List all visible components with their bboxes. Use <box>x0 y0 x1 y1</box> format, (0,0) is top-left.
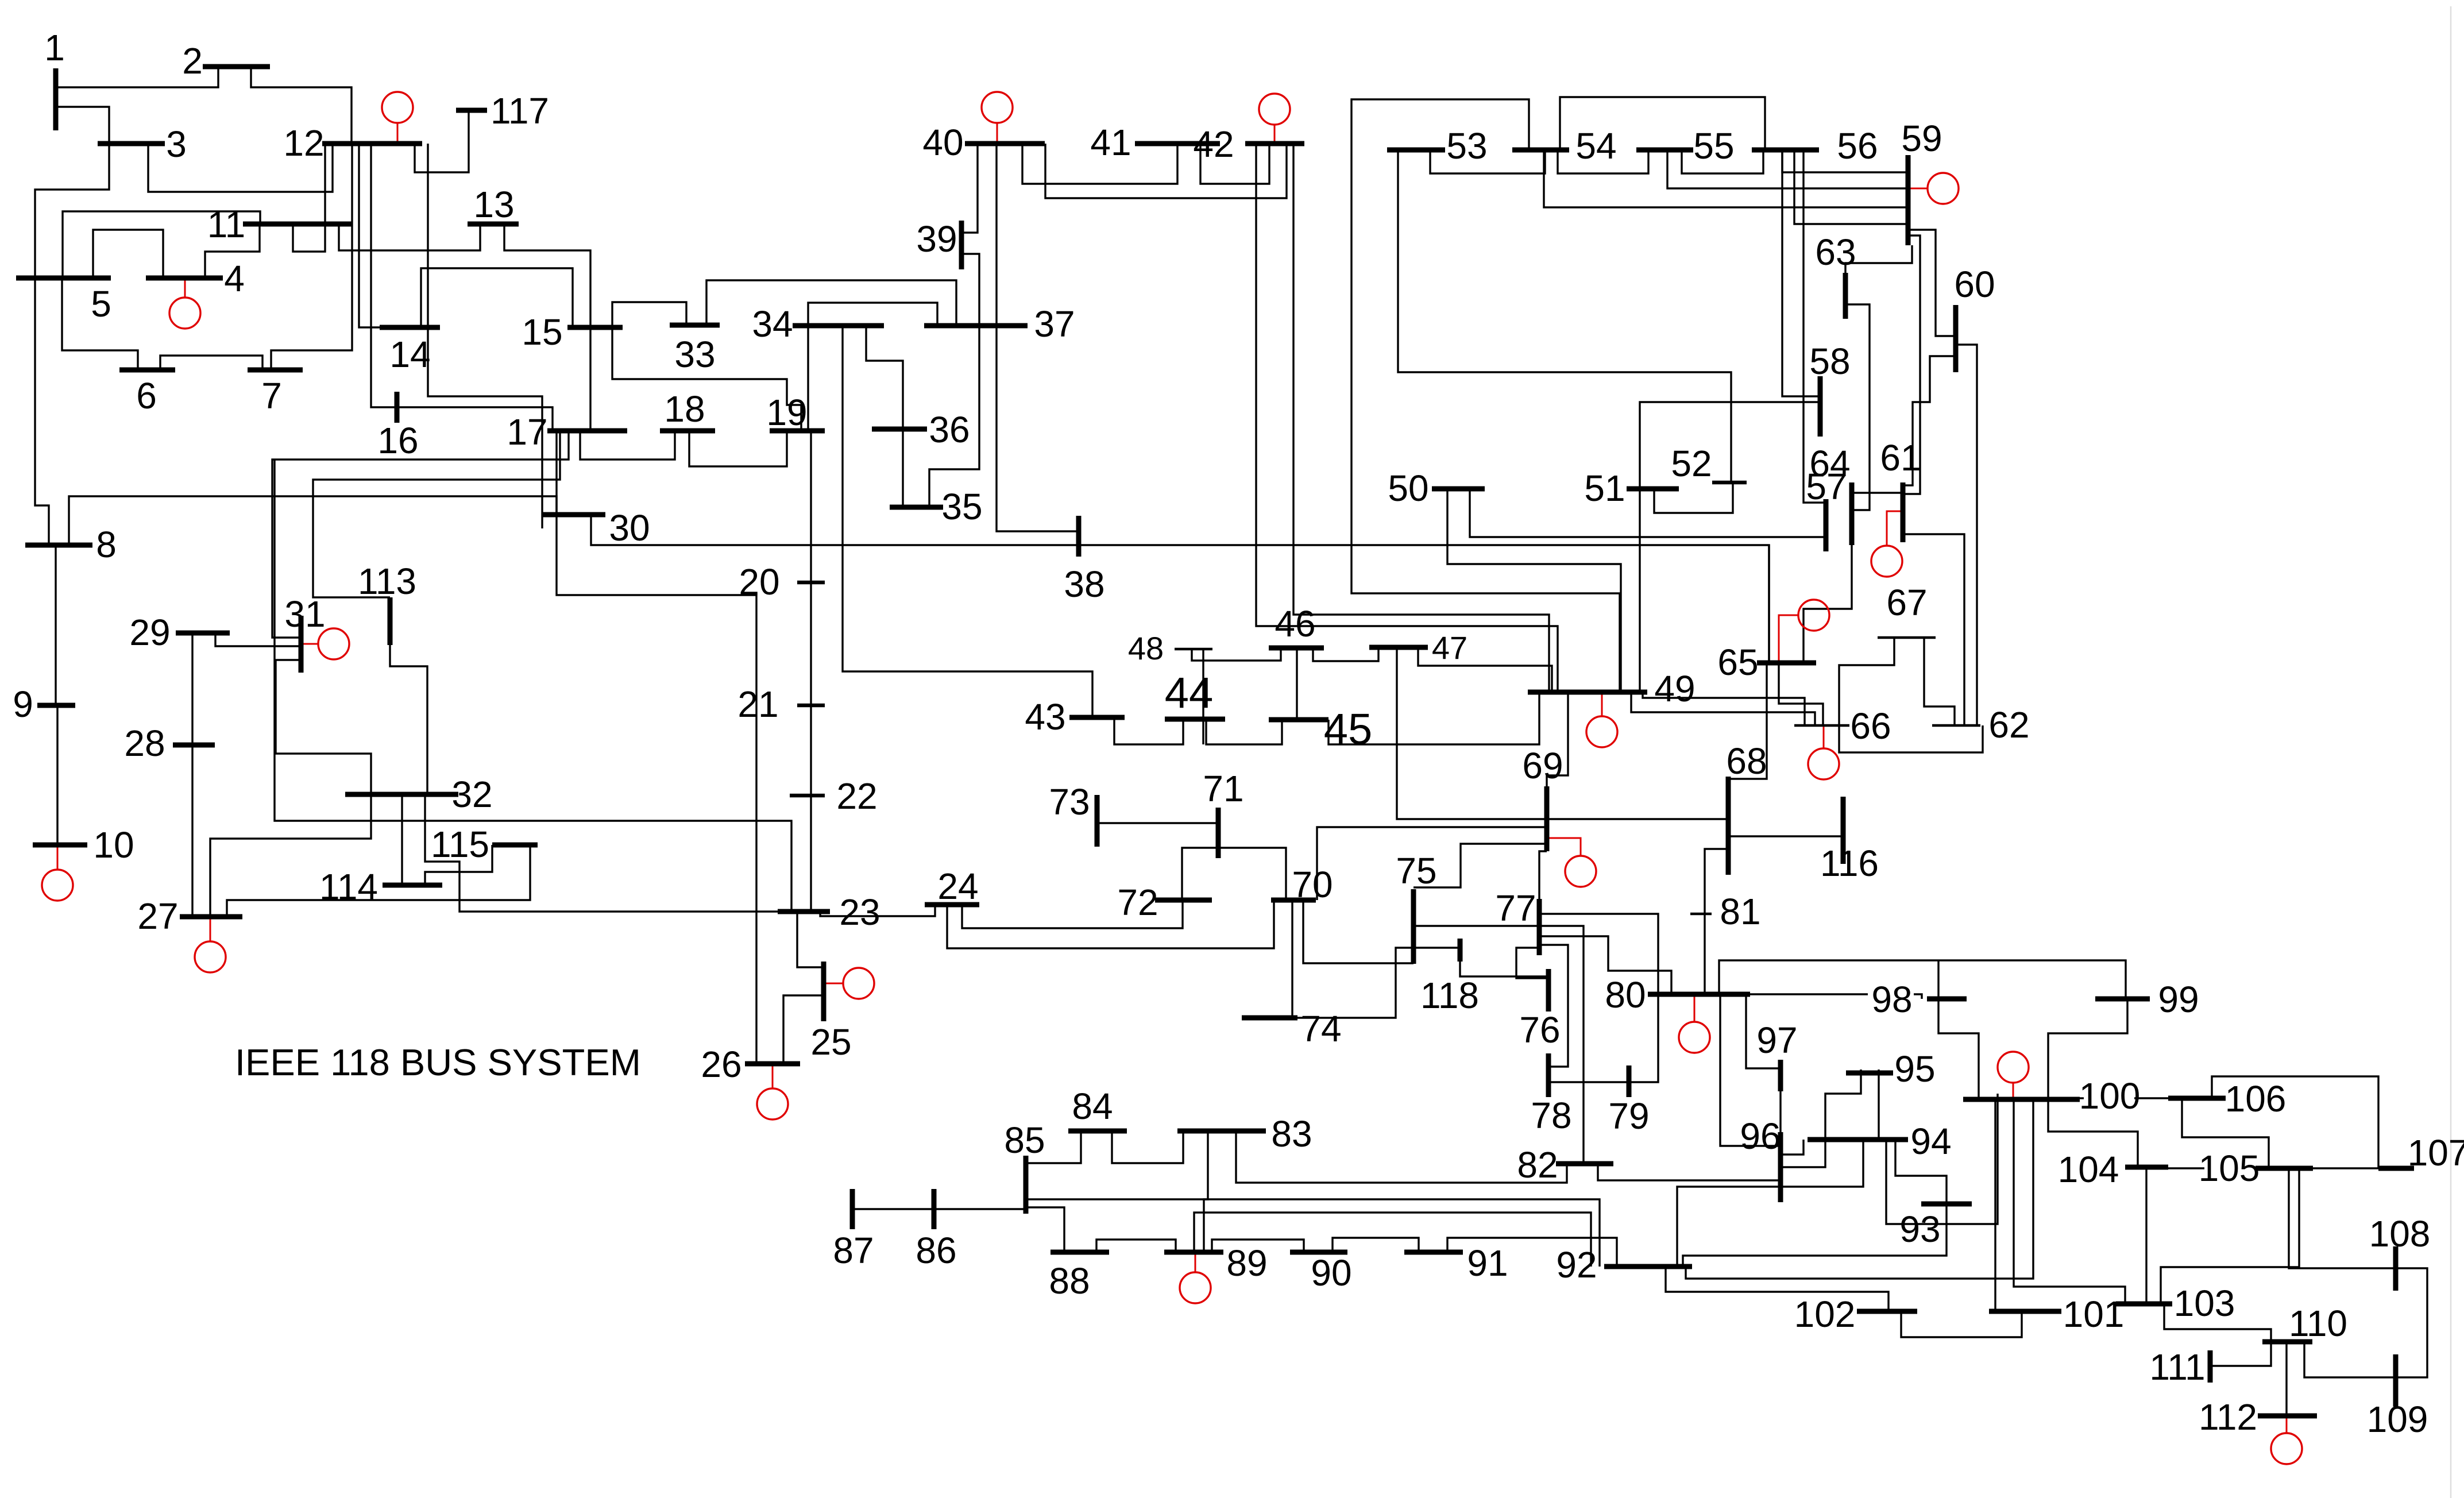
wire 77-76 <box>1516 948 1548 978</box>
wire 59-61 <box>1903 235 1920 494</box>
wire 46-48 <box>1192 648 1281 661</box>
svg-text:82: 82 <box>1517 1144 1558 1186</box>
bus 15 <box>567 325 623 330</box>
svg-text:45: 45 <box>1324 705 1373 754</box>
wire 32-114 <box>401 794 403 885</box>
wire 49-66a <box>1643 692 1805 725</box>
svg-text:68: 68 <box>1726 740 1767 782</box>
svg-text:52: 52 <box>1671 443 1712 484</box>
svg-text:79: 79 <box>1608 1095 1649 1137</box>
svg-text:94: 94 <box>1910 1121 1951 1162</box>
svg-text:44: 44 <box>1165 669 1214 717</box>
bus 111 (vertical) <box>2208 1350 2213 1383</box>
svg-text:3: 3 <box>166 123 187 165</box>
wire 64-65 <box>1803 545 1852 663</box>
wire 49-50 <box>1447 489 1621 692</box>
wire 71-73 <box>1097 822 1218 824</box>
wire 4-5 <box>93 230 163 278</box>
wire 1-2 <box>56 67 218 87</box>
bus 64 (vertical) <box>1849 482 1855 545</box>
bus 78 (vertical) <box>1546 1053 1551 1097</box>
wire 3-5 <box>35 144 109 278</box>
svg-text:51: 51 <box>1584 468 1625 509</box>
svg-text:37: 37 <box>1034 303 1075 345</box>
wire 69-75 <box>1413 844 1547 887</box>
svg-text:115: 115 <box>431 824 489 865</box>
wire 110-112 <box>2285 1342 2287 1416</box>
svg-text:19: 19 <box>766 392 807 433</box>
svg-text:90: 90 <box>1311 1252 1351 1294</box>
svg-text:102: 102 <box>1794 1294 1856 1335</box>
svg-text:41: 41 <box>1090 122 1131 163</box>
bus 27 <box>180 914 242 920</box>
wire 42-49a <box>1293 144 1549 692</box>
svg-text:99: 99 <box>2158 979 2199 1020</box>
bus 110 <box>2262 1339 2312 1345</box>
svg-text:48: 48 <box>1128 630 1164 666</box>
wire 54-59 <box>1544 150 1908 207</box>
bus 77 (vertical) <box>1537 899 1542 955</box>
svg-text:67: 67 <box>1886 582 1927 623</box>
generator at bus 80 <box>1679 994 1710 1053</box>
svg-text:13: 13 <box>473 184 514 225</box>
bus 2 <box>203 64 270 70</box>
wire 76-118 <box>1460 962 1548 976</box>
wire 4-11 <box>205 224 260 278</box>
wire 31-32 <box>276 660 371 794</box>
bus 36 <box>872 427 927 432</box>
bus 26 <box>745 1061 800 1067</box>
svg-text:16: 16 <box>377 420 418 461</box>
wire 34-37 <box>808 303 937 326</box>
wire 54-56 <box>1560 97 1765 150</box>
wire 82-83 <box>1236 1131 1567 1183</box>
svg-text:65: 65 <box>1717 642 1758 683</box>
wire 19-34 <box>807 326 809 431</box>
bus 24 <box>925 902 979 908</box>
svg-text:22: 22 <box>836 775 877 817</box>
bus 108 (vertical) <box>2393 1246 2399 1291</box>
svg-text:61: 61 <box>1880 437 1921 478</box>
wire 27-28 <box>191 743 193 917</box>
wire 94-96 <box>1781 1140 1803 1155</box>
wire 35-37 <box>929 326 979 507</box>
svg-text:83: 83 <box>1271 1113 1312 1155</box>
bus 17 <box>547 428 627 434</box>
bus 10 <box>33 843 87 848</box>
wire 45-46 <box>1296 648 1297 720</box>
bus 23 <box>778 909 830 914</box>
wire 113-32 <box>390 645 427 794</box>
wire 5-6 <box>62 278 138 370</box>
bus 102 <box>1857 1309 1917 1314</box>
generator at bus 40 <box>982 92 1013 144</box>
wire 40-41 <box>1022 144 1177 184</box>
wire 17-30 <box>555 431 557 515</box>
bus 94 <box>1808 1137 1908 1142</box>
bus 30 <box>543 512 605 518</box>
bus 7 <box>248 368 303 373</box>
wire 28-29 <box>191 633 193 743</box>
svg-text:106: 106 <box>2225 1078 2287 1119</box>
wire 47-69 <box>1397 647 1547 819</box>
svg-text:59: 59 <box>1901 118 1942 159</box>
generator at bus 42 <box>1259 94 1290 144</box>
svg-text:1: 1 <box>44 27 65 68</box>
svg-text:81: 81 <box>1720 891 1760 932</box>
svg-text:87: 87 <box>833 1230 874 1271</box>
wire 74-75 <box>1297 948 1413 1018</box>
wire 17-23? <box>275 460 791 912</box>
wire 68-69 <box>1547 818 1728 820</box>
bus 105 <box>2256 1166 2313 1171</box>
bus 28 <box>173 743 215 748</box>
bus 115 <box>492 843 538 848</box>
svg-text:42: 42 <box>1193 123 1234 165</box>
bus 101 <box>1989 1309 2061 1314</box>
svg-text:69: 69 <box>1522 745 1563 786</box>
svg-text:6: 6 <box>136 375 157 416</box>
bus 71 (vertical) <box>1216 808 1221 858</box>
generator at bus 69 <box>1547 838 1596 887</box>
bus 5 <box>16 276 111 281</box>
bus 3 <box>98 141 165 146</box>
wire 91-92 <box>1447 1238 1617 1267</box>
svg-text:60: 60 <box>1954 264 1995 305</box>
wire 29-31 <box>215 633 301 646</box>
wire 8-30 <box>69 496 557 545</box>
bus 107 <box>2378 1166 2414 1171</box>
wire 92-102 <box>1666 1267 1888 1311</box>
bus 97 (vertical) <box>1778 1060 1783 1091</box>
bus 109 (vertical) <box>2393 1354 2399 1407</box>
svg-text:30: 30 <box>609 507 650 549</box>
wire 62-66 <box>1839 725 1983 752</box>
bus 44 <box>1165 717 1225 722</box>
wire 106-107 <box>2212 1076 2378 1168</box>
svg-text:62: 62 <box>1988 704 2029 746</box>
svg-text:17: 17 <box>507 411 547 453</box>
generator at bus 12 <box>382 92 413 144</box>
wire 46-47 <box>1313 648 1378 661</box>
wire 17-113 <box>313 431 560 597</box>
svg-text:56: 56 <box>1837 125 1878 167</box>
wire 56-59a <box>1782 150 1908 172</box>
wire 100-104 <box>2048 1099 2138 1167</box>
wire 19-20 <box>810 431 812 582</box>
svg-text:78: 78 <box>1531 1095 1571 1136</box>
wire 92-100 <box>1686 1099 2033 1279</box>
svg-text:36: 36 <box>929 409 970 450</box>
wire 71-72 <box>1182 848 1218 900</box>
wire 1-3 <box>56 107 109 144</box>
wire 95-96 <box>1781 1070 1861 1167</box>
wire 37-39 <box>961 254 979 326</box>
wire 33-37 <box>706 280 956 326</box>
wire 65-66 <box>1779 663 1823 725</box>
wire 62-67 <box>1924 638 1955 725</box>
bus 35 <box>890 505 943 510</box>
svg-text:31: 31 <box>284 593 325 635</box>
svg-text:32: 32 <box>451 774 492 815</box>
wire 80-99 <box>1719 960 2126 999</box>
bus 118 (vertical) <box>1458 939 1463 962</box>
wire 103-110 <box>2164 1304 2271 1342</box>
wire 108-109 <box>2396 1268 2427 1377</box>
svg-text:53: 53 <box>1446 125 1487 167</box>
bus 43 <box>1069 715 1125 720</box>
wire 105-106 <box>2182 1098 2269 1168</box>
bus 22 <box>790 794 825 798</box>
bus 56 <box>1752 148 1819 153</box>
wire 100-101 <box>1994 1099 1996 1311</box>
svg-text:58: 58 <box>1809 341 1850 382</box>
wire 79-80 <box>1629 994 1658 1082</box>
wire 37-38 <box>997 326 1079 531</box>
wire 8-9 <box>55 545 56 705</box>
wire 68-81-80 <box>1705 849 1728 994</box>
wire 89-90 <box>1212 1240 1304 1252</box>
wire 93-94 <box>1895 1140 1947 1204</box>
svg-text:88: 88 <box>1049 1260 1090 1302</box>
wire 66-67 <box>1839 638 1894 725</box>
wire 98-100 <box>1938 999 1979 1099</box>
wire 49-69 <box>1547 692 1568 786</box>
wire 20-21 <box>810 582 812 705</box>
svg-text:111: 111 <box>2149 1346 2205 1388</box>
generator at bus 112 <box>2271 1416 2302 1464</box>
bus 89 <box>1164 1250 1223 1255</box>
bus 62 <box>1932 724 1980 727</box>
svg-text:54: 54 <box>1575 125 1616 167</box>
svg-text:25: 25 <box>810 1021 851 1063</box>
bus 50 <box>1432 487 1485 492</box>
svg-text:4: 4 <box>224 258 245 299</box>
svg-text:43: 43 <box>1025 696 1065 738</box>
bus 65 <box>1757 661 1816 666</box>
wire 89-92b <box>1204 1199 1600 1267</box>
bus 81 <box>1690 913 1712 916</box>
svg-text:75: 75 <box>1396 850 1436 891</box>
wire 70-75 <box>1303 900 1413 963</box>
svg-text:108: 108 <box>2369 1213 2431 1254</box>
bus 88 <box>1051 1250 1109 1255</box>
bus 20 <box>797 581 825 585</box>
wire 68-116 <box>1728 835 1843 837</box>
wire 38-65b <box>1768 545 1770 663</box>
wire 80-98b <box>1914 994 1922 999</box>
wire 100-103 <box>2014 1099 2125 1304</box>
bus 4 <box>146 276 223 281</box>
svg-text:114: 114 <box>319 866 378 908</box>
bus 82 <box>1556 1161 1613 1167</box>
svg-text:80: 80 <box>1605 974 1646 1016</box>
wire 45-49 <box>1328 692 1539 744</box>
wire 80-97 <box>1746 994 1781 1068</box>
wire 70-74 <box>1291 900 1293 1018</box>
wire 23-25 <box>797 912 824 967</box>
wire 49-66b <box>1631 692 1815 725</box>
wire 25-26 <box>783 995 824 1064</box>
wire 77-78 <box>1539 945 1568 1067</box>
bus 76 (vertical) <box>1546 969 1551 1011</box>
svg-text:28: 28 <box>124 723 165 764</box>
wire 38-65 <box>1079 545 1769 663</box>
wire 43-44 <box>1114 717 1183 744</box>
wire 94-95 <box>1878 1070 1879 1140</box>
generator at bus 66 <box>1808 725 1839 779</box>
svg-text:46: 46 <box>1275 603 1315 644</box>
wire 11-12 <box>293 144 325 252</box>
bus 39 (vertical) <box>959 221 964 269</box>
wire 78-79 <box>1548 1081 1629 1083</box>
svg-text:18: 18 <box>664 388 705 430</box>
bus 116 (vertical) <box>1841 797 1846 864</box>
svg-text:76: 76 <box>1519 1009 1560 1051</box>
wire 54-55 <box>1558 150 1648 173</box>
bus 113 (vertical) <box>388 597 393 645</box>
wire 70-71 <box>1218 848 1286 900</box>
generator at bus 31 <box>302 628 349 659</box>
svg-text:15: 15 <box>522 311 562 353</box>
svg-text:35: 35 <box>941 486 982 527</box>
wire 109-110 <box>2304 1342 2396 1377</box>
wire 7-12 <box>271 144 352 370</box>
wire 34-43 <box>843 326 1092 717</box>
svg-text:73: 73 <box>1049 781 1090 823</box>
bus 103 <box>2116 1302 2172 1307</box>
svg-text:116: 116 <box>1820 843 1879 884</box>
bus 112 <box>2258 1414 2317 1419</box>
wire 35-36 <box>902 429 903 507</box>
wire 100-106 <box>2080 1097 2084 1099</box>
bus 79 (vertical) <box>1627 1065 1632 1097</box>
svg-text:104: 104 <box>2058 1149 2119 1190</box>
wire 69-77 <box>1539 851 1547 899</box>
svg-text:IEEE 118 BUS SYSTEM: IEEE 118 BUS SYSTEM <box>235 1041 641 1083</box>
svg-text:7: 7 <box>261 375 282 416</box>
wire 24-70 <box>947 900 1274 948</box>
svg-text:49: 49 <box>1654 668 1695 709</box>
bus 95 <box>1846 1071 1893 1076</box>
wire 105-108 <box>2289 1168 2396 1268</box>
wire 22-23 <box>810 796 812 912</box>
bus 114 <box>383 883 442 888</box>
svg-text:66: 66 <box>1850 705 1891 747</box>
bus 14 <box>380 325 440 330</box>
svg-text:50: 50 <box>1388 468 1428 509</box>
wire 12-16 <box>371 144 397 407</box>
wire 9-10 <box>56 705 58 845</box>
wire 98-tap <box>1937 960 1939 999</box>
svg-text:9: 9 <box>13 684 33 725</box>
svg-text:113: 113 <box>358 561 416 602</box>
wire 15-17 <box>589 326 591 431</box>
wire 49-54a <box>1351 99 1620 692</box>
wire 61-62 <box>1903 534 1964 725</box>
wire 21-22 <box>810 705 812 796</box>
svg-text:55: 55 <box>1693 125 1734 167</box>
wire 24-72 <box>962 900 1183 928</box>
wire 6-7 <box>160 356 262 370</box>
bus 55 <box>1636 148 1693 153</box>
wire 94-100 <box>1886 1094 1998 1224</box>
bus 32 <box>345 792 458 797</box>
wire 80-96 <box>1720 994 1781 1146</box>
generator at bus 100 <box>1998 1052 2029 1099</box>
svg-text:63: 63 <box>1815 231 1856 273</box>
bus 45 <box>1269 717 1328 723</box>
generator at bus 25 <box>824 968 874 999</box>
bus 42 <box>1245 141 1304 146</box>
wire 2-12 <box>251 67 352 144</box>
svg-text:71: 71 <box>1203 768 1243 809</box>
wire 83-84 <box>1112 1131 1183 1163</box>
bus 18 <box>660 428 715 434</box>
wire 82-96 <box>1598 1164 1781 1180</box>
wire 75-77 <box>1413 925 1539 926</box>
svg-text:72: 72 <box>1117 882 1158 923</box>
svg-text:70: 70 <box>1292 864 1333 905</box>
generator at bus 26 <box>757 1064 788 1119</box>
svg-text:24: 24 <box>937 866 978 907</box>
wire 18-19 <box>689 431 787 466</box>
wire 59-63 <box>1845 245 1912 273</box>
border artifact line <box>2450 6 2452 1498</box>
wire 41-42 <box>1200 144 1269 184</box>
generator at bus 65 <box>1779 600 1829 663</box>
wire 101-102 <box>1901 1311 2022 1337</box>
wire 12-14 <box>359 144 380 327</box>
svg-text:21: 21 <box>737 684 778 725</box>
svg-text:8: 8 <box>96 524 117 565</box>
bus 91 <box>1404 1250 1463 1255</box>
svg-text:27: 27 <box>137 895 178 937</box>
wire 114-115 <box>425 845 492 885</box>
svg-text:118: 118 <box>1420 975 1479 1016</box>
wire 15-19 <box>612 326 801 431</box>
bus 60 (vertical) <box>1953 305 1959 372</box>
generator at bus 49 <box>1586 692 1617 747</box>
bus 80 <box>1648 992 1750 997</box>
bus 96 (vertical) <box>1778 1132 1783 1202</box>
bus 74 <box>1242 1016 1297 1021</box>
svg-text:100: 100 <box>2079 1075 2141 1117</box>
wire 103-105 <box>2161 1168 2299 1304</box>
bus 92 <box>1604 1264 1692 1269</box>
bus 51 <box>1627 487 1679 492</box>
bus 11 <box>243 222 353 227</box>
bus 49 <box>1528 690 1647 695</box>
svg-text:112: 112 <box>2199 1396 2257 1438</box>
bus 58 (vertical) <box>1818 376 1823 437</box>
wire 27-32 <box>210 794 371 917</box>
bus 90 <box>1290 1250 1347 1255</box>
svg-text:12: 12 <box>283 122 324 164</box>
wire 77-80b <box>1539 936 1671 994</box>
svg-text:98: 98 <box>1871 979 1912 1020</box>
wire 50-57 <box>1470 489 1826 537</box>
svg-text:109: 109 <box>2367 1399 2428 1440</box>
bus 99 <box>2095 997 2150 1002</box>
wire 12-117 <box>415 110 469 172</box>
svg-text:29: 29 <box>129 612 170 653</box>
wire 48-49 <box>1202 649 1204 744</box>
wire 47-49 <box>1418 647 1552 692</box>
wire 55-59 <box>1667 150 1908 188</box>
bus 117 <box>456 108 487 113</box>
bus 40 <box>965 141 1045 146</box>
